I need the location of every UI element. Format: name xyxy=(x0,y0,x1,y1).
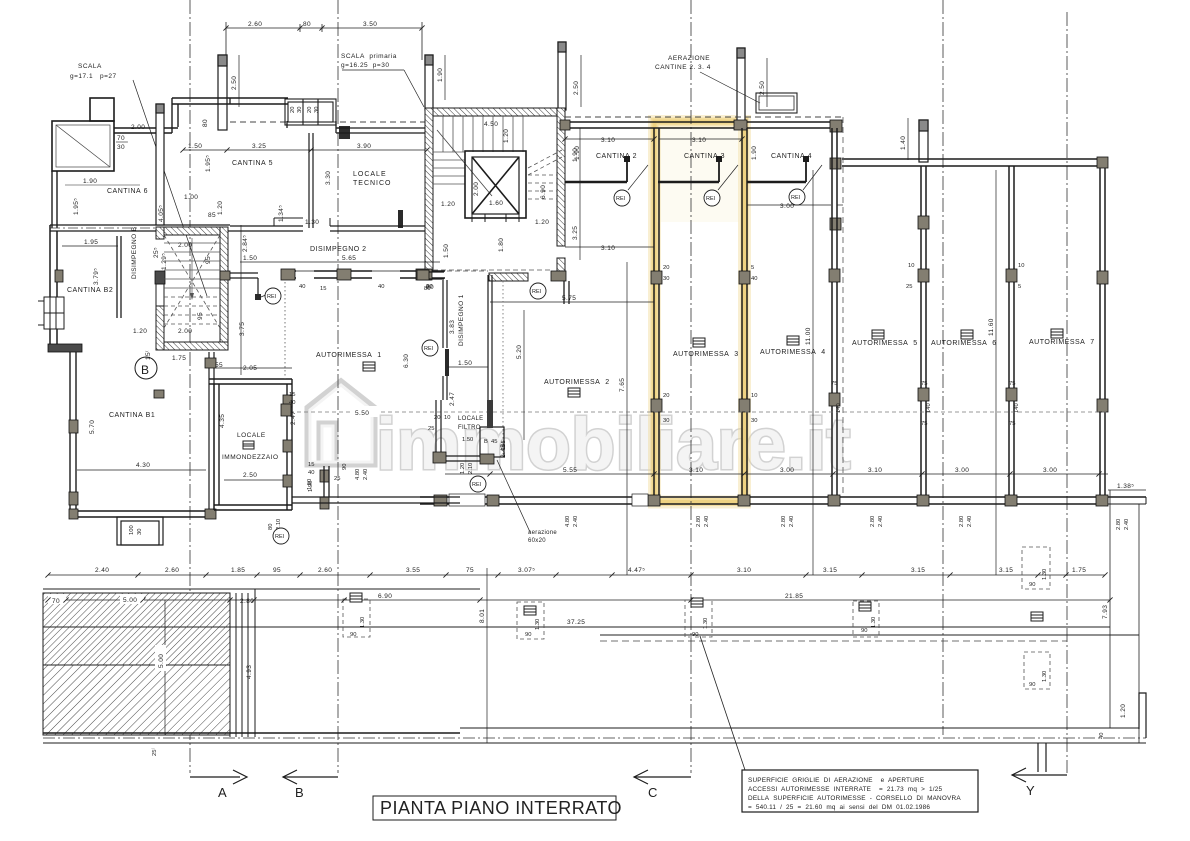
svg-text:2.80: 2.80 xyxy=(959,516,965,527)
filtro bottom block xyxy=(480,454,494,464)
svg-text:B: B xyxy=(484,439,488,445)
svg-text:30: 30 xyxy=(663,276,669,282)
svg-text:3.00: 3.00 xyxy=(1043,467,1057,474)
svg-text:40: 40 xyxy=(1099,733,1105,739)
wall corner blocks B1 xyxy=(69,358,216,519)
svg-text:2.80: 2.80 xyxy=(781,516,787,527)
svg-text:90: 90 xyxy=(1029,582,1035,588)
svg-text:AERAZIONE: AERAZIONE xyxy=(668,55,710,62)
dashed opening disimpegno1 top xyxy=(447,270,488,272)
svg-text:LOCALE: LOCALE xyxy=(353,171,387,178)
divider wall aut2/aut3 x654 xyxy=(654,128,659,497)
svg-text:3.00: 3.00 xyxy=(955,467,969,474)
svg-text:5.75: 5.75 xyxy=(562,295,576,302)
svg-text:A: A xyxy=(218,785,227,800)
svg-text:2.60: 2.60 xyxy=(248,21,262,28)
svg-text:LOCALE: LOCALE xyxy=(237,432,266,439)
stairwell corner blocks xyxy=(419,271,431,280)
top-left small room inner lines xyxy=(56,125,110,167)
immondezzaio labels xyxy=(222,432,279,461)
svg-text:AUTORIMESSA 3: AUTORIMESSA 3 xyxy=(673,351,739,358)
svg-text:2.40: 2.40 xyxy=(789,516,795,527)
cantinaB2 1.95 dim line xyxy=(62,245,118,247)
dim 1.90 3.25 right of stairwell xyxy=(579,128,581,260)
leader aerazione xyxy=(700,72,760,103)
svg-text:40: 40 xyxy=(751,276,757,282)
divider cantina5/tecnico x311 xyxy=(309,133,313,228)
svg-text:40: 40 xyxy=(289,400,295,406)
ramp inner line y665 xyxy=(43,664,230,666)
svg-text:3.10: 3.10 xyxy=(601,137,615,144)
svg-text:70: 70 xyxy=(117,135,125,142)
note text xyxy=(748,777,961,811)
svg-text:15: 15 xyxy=(320,286,326,292)
svg-text:3.15: 3.15 xyxy=(999,567,1013,574)
ramp inner line y627 xyxy=(43,626,230,628)
svg-text:AUTORIMESSA 6: AUTORIMESSA 6 xyxy=(931,340,997,347)
svg-text:1.90: 1.90 xyxy=(574,146,581,160)
svg-text:75: 75 xyxy=(921,381,927,387)
svg-text:2.60: 2.60 xyxy=(165,567,179,574)
svg-text:1.90: 1.90 xyxy=(751,146,758,160)
svg-text:6.90: 6.90 xyxy=(378,593,392,600)
svg-text:3.25: 3.25 xyxy=(252,143,266,150)
svg-text:5.20: 5.20 xyxy=(516,345,523,359)
svg-text:CANTINA 2: CANTINA 2 xyxy=(596,153,637,160)
svg-text:1.20: 1.20 xyxy=(133,328,147,335)
stair B dims xyxy=(133,242,212,362)
svg-text:B: B xyxy=(141,363,149,377)
svg-text:= 540.11 / 25 = 21.60 mq: = 540.11 / 25 = 21.60 mq ai sensi del DM… xyxy=(748,804,930,811)
dashed ceiling line garages xyxy=(290,411,1106,413)
svg-text:CANTINA B1: CANTINA B1 xyxy=(109,412,155,419)
svg-text:40: 40 xyxy=(299,284,305,290)
svg-text:SCALA primaria: SCALA primaria xyxy=(341,53,397,60)
svg-text:80: 80 xyxy=(268,524,274,530)
svg-text:7.93: 7.93 xyxy=(1102,605,1109,619)
ramp hatched area lower xyxy=(43,665,230,735)
svg-text:2.05: 2.05 xyxy=(243,365,257,372)
svg-text:4.80: 4.80 xyxy=(355,469,361,480)
corridor dim line y600 xyxy=(254,599,1110,601)
svg-text:4.30: 4.30 xyxy=(136,462,150,469)
svg-text:2.50: 2.50 xyxy=(573,81,580,95)
wall top cantina6 area xyxy=(114,98,288,133)
svg-text:3.10: 3.10 xyxy=(601,245,615,252)
B2 bottom dark bar xyxy=(48,344,82,352)
svg-text:3.07⁵: 3.07⁵ xyxy=(518,567,535,574)
svg-text:90: 90 xyxy=(342,464,348,470)
stairwell right wall hatched lower xyxy=(557,258,565,271)
svg-text:140: 140 xyxy=(1014,403,1020,413)
B1 window box 100/30 xyxy=(117,517,163,545)
elevator shaft xyxy=(465,151,526,222)
svg-text:1.38⁵: 1.38⁵ xyxy=(1117,483,1134,490)
svg-text:1.75: 1.75 xyxy=(172,355,186,362)
top dimension chain 2.60/80/3.50 xyxy=(226,22,422,60)
svg-text:95: 95 xyxy=(273,567,281,574)
svg-text:2.47: 2.47 xyxy=(449,392,456,406)
svg-text:2.80: 2.80 xyxy=(1116,519,1122,530)
svg-text:2.00: 2.00 xyxy=(473,182,480,196)
svg-text:FILTRO: FILTRO xyxy=(458,425,481,431)
dim row cantina5: 1.50 3.25 3.90 xyxy=(183,149,427,151)
B1 left wall xyxy=(70,352,76,517)
svg-text:PIANTA PIANO INTERRATO: PIANTA PIANO INTERRATO xyxy=(380,798,622,818)
svg-text:5.70: 5.70 xyxy=(89,420,96,434)
svg-text:2.40: 2.40 xyxy=(95,567,109,574)
svg-text:5: 5 xyxy=(751,265,754,271)
svg-text:1.30: 1.30 xyxy=(360,617,366,628)
aut1 wall stub y271 left xyxy=(419,272,444,279)
tecnico inner post xyxy=(398,210,403,228)
left outer wall B2 xyxy=(50,225,57,347)
svg-text:140: 140 xyxy=(836,403,842,413)
section circle B xyxy=(135,357,157,379)
svg-text:REI: REI xyxy=(616,196,626,202)
immondezzaio room xyxy=(209,379,292,510)
block filtro bottom-left xyxy=(433,452,446,463)
gridline Y x=1067 xyxy=(1066,12,1068,773)
divider wall aut3/aut4 x742 xyxy=(742,128,747,497)
right outer wall x1100 xyxy=(1100,168,1105,497)
svg-text:1.20: 1.20 xyxy=(441,201,455,208)
svg-text:2.60: 2.60 xyxy=(318,567,332,574)
disimpegno1 left wall x443 xyxy=(443,280,447,400)
right wing corner column xyxy=(1097,157,1108,168)
door frame pieces cantina5 xyxy=(274,218,330,226)
dim 2.00 top-left xyxy=(131,124,145,131)
svg-text:3.10: 3.10 xyxy=(692,137,706,144)
svg-text:1.30: 1.30 xyxy=(535,619,541,630)
svg-text:10: 10 xyxy=(1018,263,1024,269)
top vertical dims xyxy=(239,55,908,160)
svg-text:10: 10 xyxy=(751,393,757,399)
section arrow B xyxy=(283,770,338,784)
svg-text:15: 15 xyxy=(289,392,295,398)
wall left cantina6 xyxy=(52,171,57,228)
svg-text:80: 80 xyxy=(303,21,311,28)
svg-text:AUTORIMESSA 4: AUTORIMESSA 4 xyxy=(760,349,826,356)
aerazione grille box cantina5 xyxy=(285,99,336,125)
dim lines cantina xyxy=(565,139,843,247)
stairwell primaria top wall hatched xyxy=(425,108,565,116)
ramp labels on hatch xyxy=(52,597,165,668)
svg-text:10: 10 xyxy=(908,263,914,269)
svg-text:15: 15 xyxy=(308,462,314,468)
svg-text:2.50: 2.50 xyxy=(243,472,257,479)
gridline A x=190 xyxy=(189,0,191,773)
title box xyxy=(373,796,616,820)
dotted line disimpegno2 x503 xyxy=(502,281,504,455)
svg-text:20: 20 xyxy=(663,265,669,271)
svg-text:1.90: 1.90 xyxy=(437,68,444,82)
svg-text:75: 75 xyxy=(1009,421,1015,427)
svg-text:1.20: 1.20 xyxy=(1120,704,1127,718)
wall under grille box to stairwell xyxy=(230,98,427,133)
svg-text:25⁵: 25⁵ xyxy=(153,247,160,258)
svg-text:60x20: 60x20 xyxy=(528,538,546,544)
corridor right lines xyxy=(600,634,1139,636)
cantina door leaves xyxy=(627,160,806,182)
svg-text:REI: REI xyxy=(424,346,434,352)
grille box labels xyxy=(350,569,1048,688)
svg-text:70: 70 xyxy=(52,598,60,605)
svg-text:1.34⁵: 1.34⁵ xyxy=(278,205,285,222)
stairwell bottom wall piece hatched xyxy=(489,273,528,281)
svg-text:2.00: 2.00 xyxy=(178,328,192,335)
disimpegno2 wall y271 blocks and doors xyxy=(281,271,445,278)
dims 70/30 small room xyxy=(116,135,128,151)
svg-text:95: 95 xyxy=(205,256,212,264)
B1 dims xyxy=(89,420,150,469)
svg-text:3.55: 3.55 xyxy=(406,567,420,574)
svg-text:SUPERFICIE GRIGLIE DI AERAZ: SUPERFICIE GRIGLIE DI AERAZIONE e APERTU… xyxy=(748,777,924,784)
REI circles xyxy=(265,189,805,544)
svg-text:3.15: 3.15 xyxy=(823,567,837,574)
aerazione 60x20 leader xyxy=(497,460,530,532)
stairwell dims xyxy=(426,121,549,291)
svg-text:CANTINA B2: CANTINA B2 xyxy=(67,287,113,294)
stairwell dashed landing line xyxy=(433,269,553,271)
B1 bottom wall xyxy=(70,511,212,517)
svg-text:IMMONDEZZAIO: IMMONDEZZAIO xyxy=(222,454,279,461)
svg-text:20: 20 xyxy=(290,107,296,113)
B2 dims xyxy=(84,227,138,285)
svg-text:1.20: 1.20 xyxy=(535,219,549,226)
svg-text:1.40: 1.40 xyxy=(900,136,907,150)
svg-text:AUTORIMESSA 2: AUTORIMESSA 2 xyxy=(544,379,610,386)
svg-text:80: 80 xyxy=(424,286,430,292)
svg-text:REI: REI xyxy=(532,289,542,295)
svg-text:DISIMPEGNO B: DISIMPEGNO B xyxy=(131,227,138,279)
disimpegno1 door leaf xyxy=(445,349,449,376)
svg-text:4.93: 4.93 xyxy=(246,665,253,679)
gridline D x=943 xyxy=(942,0,944,735)
svg-text:1.60: 1.60 xyxy=(489,200,503,207)
svg-text:1.30: 1.30 xyxy=(703,618,709,629)
svg-text:CANTINA 3: CANTINA 3 xyxy=(684,153,725,160)
locale filtro room xyxy=(480,427,504,457)
svg-text:90: 90 xyxy=(1029,682,1035,688)
svg-text:3.10: 3.10 xyxy=(868,467,882,474)
disimpegno2 dim line xyxy=(240,261,440,263)
svg-text:1.29⁵: 1.29⁵ xyxy=(161,253,168,270)
small labels aut1 xyxy=(268,392,369,530)
svg-text:90: 90 xyxy=(350,632,356,638)
right wing top wall xyxy=(842,159,1106,166)
garage bottom wall blocks xyxy=(434,495,1108,506)
svg-text:1.30: 1.30 xyxy=(305,219,319,226)
svg-text:6.30: 6.30 xyxy=(403,354,410,368)
svg-text:1.50: 1.50 xyxy=(243,255,257,262)
svg-text:2.40: 2.40 xyxy=(1124,519,1130,530)
highlighted unit (cantina3+autorimessa3) yellow band xyxy=(655,122,745,503)
svg-text:1.50: 1.50 xyxy=(443,244,450,258)
svg-text:1.95⁵: 1.95⁵ xyxy=(73,198,80,215)
label aerazione cantine xyxy=(655,55,711,71)
right corridor vertical x1110 xyxy=(1109,490,1111,728)
svg-text:10: 10 xyxy=(444,415,450,421)
svg-text:30: 30 xyxy=(314,107,320,113)
svg-text:7.65: 7.65 xyxy=(619,378,626,392)
svg-text:4.80: 4.80 xyxy=(565,516,571,527)
svg-text:C: C xyxy=(648,785,657,800)
dim 5.75 line xyxy=(490,301,654,303)
svg-text:LOCALE: LOCALE xyxy=(458,416,483,422)
aut1 left dotted boundary xyxy=(284,282,286,379)
door width labels 280/240 rotated xyxy=(565,516,1130,530)
svg-text:30: 30 xyxy=(137,529,143,535)
svg-text:AUTORIMESSA 1: AUTORIMESSA 1 xyxy=(316,352,382,359)
disimpegnoB lower corridor dims xyxy=(215,322,257,372)
gridline B x=338 xyxy=(337,0,339,773)
svg-text:20: 20 xyxy=(663,393,669,399)
svg-text:CANTINE 2. 3. 4: CANTINE 2. 3. 4 xyxy=(655,64,711,71)
svg-text:5.00: 5.00 xyxy=(158,654,165,668)
svg-text:B: B xyxy=(295,785,304,800)
svg-text:REI: REI xyxy=(791,195,801,201)
svg-text:2.40: 2.40 xyxy=(704,516,710,527)
stair treads vertical xyxy=(443,116,523,152)
svg-text:AUTORIMESSA 7: AUTORIMESSA 7 xyxy=(1029,339,1095,346)
svg-text:REI: REI xyxy=(472,482,482,488)
svg-text:2.40: 2.40 xyxy=(573,516,579,527)
svg-text:2.84⁵: 2.84⁵ xyxy=(242,235,249,252)
stair B dashed treads xyxy=(164,235,220,328)
svg-text:1.95⁵: 1.95⁵ xyxy=(205,155,212,172)
svg-text:105: 105 xyxy=(501,440,507,450)
short wall below stairwell block xyxy=(564,281,569,304)
svg-text:1.75: 1.75 xyxy=(1072,567,1086,574)
svg-text:2.40: 2.40 xyxy=(363,469,369,480)
stair diagonal leader xyxy=(437,130,492,196)
stair B up arrow xyxy=(191,238,193,298)
top column stub x558 xyxy=(558,42,566,110)
svg-text:1.50: 1.50 xyxy=(458,360,472,367)
svg-text:30: 30 xyxy=(751,418,757,424)
svg-text:100: 100 xyxy=(129,525,135,535)
corridor grille symbols xyxy=(350,593,1043,621)
svg-text:3.10: 3.10 xyxy=(737,567,751,574)
dash-dot overlay cantina6 bottom xyxy=(50,227,230,229)
dashed boundary line beside x843 xyxy=(842,117,844,497)
svg-text:30: 30 xyxy=(117,144,125,151)
svg-text:8.01: 8.01 xyxy=(479,609,486,623)
svg-text:30: 30 xyxy=(297,107,303,113)
corridor line y627 xyxy=(43,626,1110,628)
svg-text:25⁽: 25⁽ xyxy=(151,748,158,756)
dark block right of grille box xyxy=(339,126,350,139)
svg-text:SCALA: SCALA xyxy=(78,63,102,70)
top-left small room xyxy=(52,98,114,171)
svg-text:40: 40 xyxy=(308,470,314,476)
top wall corner blocks xyxy=(734,120,747,130)
svg-text:3.30: 3.30 xyxy=(325,171,332,185)
svg-text:11.00: 11.00 xyxy=(805,327,812,345)
garage door openings xyxy=(449,494,648,506)
svg-text:5.65: 5.65 xyxy=(342,255,356,262)
garage interior dim verticals xyxy=(627,170,996,575)
svg-text:5.55: 5.55 xyxy=(563,467,577,474)
svg-text:REI: REI xyxy=(267,294,277,300)
corridor dim line x241 xyxy=(240,225,242,375)
svg-text:4.47⁵: 4.47⁵ xyxy=(628,567,645,574)
svg-text:1.50: 1.50 xyxy=(462,437,473,443)
dims small bottom-left garage xyxy=(307,462,340,492)
svg-text:4.35: 4.35 xyxy=(219,414,226,428)
dashed aerazione line cantina5 xyxy=(230,121,425,123)
svg-text:80: 80 xyxy=(202,119,209,127)
B1 right wall xyxy=(209,352,214,511)
svg-text:75: 75 xyxy=(1009,381,1015,387)
svg-text:DISIMPEGNO 1: DISIMPEGNO 1 xyxy=(458,294,465,346)
ramp right edge lines xyxy=(230,589,255,737)
svg-text:AUTORIMESSA 5: AUTORIMESSA 5 xyxy=(852,340,918,347)
svg-text:6.90: 6.90 xyxy=(540,185,547,199)
ramp dim line y600 xyxy=(48,599,254,601)
locale tecnico label xyxy=(353,171,392,187)
svg-text:85: 85 xyxy=(208,212,216,219)
svg-text:aerazione: aerazione xyxy=(528,530,557,536)
svg-text:3.10: 3.10 xyxy=(689,467,703,474)
svg-text:25: 25 xyxy=(906,284,912,290)
svg-text:2.40: 2.40 xyxy=(878,516,884,527)
svg-text:1.20: 1.20 xyxy=(217,201,224,215)
svg-text:45: 45 xyxy=(491,439,497,445)
svg-text:1.00: 1.00 xyxy=(184,194,198,201)
svg-text:2.80: 2.80 xyxy=(696,516,702,527)
svg-text:REI: REI xyxy=(706,196,716,202)
svg-text:1.30: 1.30 xyxy=(1042,569,1048,580)
aut1 right wall lower extension xyxy=(436,400,480,461)
small blocks near immondezzaio xyxy=(283,395,329,509)
garage labels xyxy=(316,339,1095,386)
immondezzaio grille xyxy=(243,441,254,449)
svg-text:2.80: 2.80 xyxy=(870,516,876,527)
block labels 20/30 row1 xyxy=(663,263,1024,427)
cantina3 pale interior tint xyxy=(657,127,739,222)
stairwell left wall hatched xyxy=(425,108,433,271)
top column stub x425 xyxy=(425,55,433,110)
svg-text:3.50: 3.50 xyxy=(363,21,377,28)
svg-text:20: 20 xyxy=(434,415,440,421)
watermark immobiliare.it xyxy=(308,382,851,485)
svg-text:1.90: 1.90 xyxy=(83,178,97,185)
cantina partition wall y182 xyxy=(565,181,806,183)
svg-text:CANTINA 5: CANTINA 5 xyxy=(232,160,273,167)
corridor wall stub y273 + door leaf xyxy=(229,273,258,296)
svg-text:25: 25 xyxy=(428,426,434,432)
garage width dim row y474 xyxy=(445,473,1108,475)
svg-text:90: 90 xyxy=(525,632,531,638)
divider wall aut4/aut5 x832 xyxy=(832,128,837,497)
stair B treads xyxy=(164,243,220,288)
svg-text:3.90: 3.90 xyxy=(357,143,371,150)
corridor dim chain y575 xyxy=(48,574,1105,576)
svg-text:1.80: 1.80 xyxy=(498,238,505,252)
leader scala sx xyxy=(133,80,207,296)
top column stub x737 xyxy=(737,48,745,126)
svg-text:1.50: 1.50 xyxy=(188,143,202,150)
label scala sx xyxy=(70,63,117,80)
window bumps left xyxy=(38,297,64,329)
svg-text:75: 75 xyxy=(831,381,837,387)
ramp hatched area upper xyxy=(43,593,230,665)
garage grille symbols xyxy=(363,329,1063,397)
svg-text:5: 5 xyxy=(1018,284,1021,290)
stair dashed diagonals right xyxy=(528,150,562,199)
